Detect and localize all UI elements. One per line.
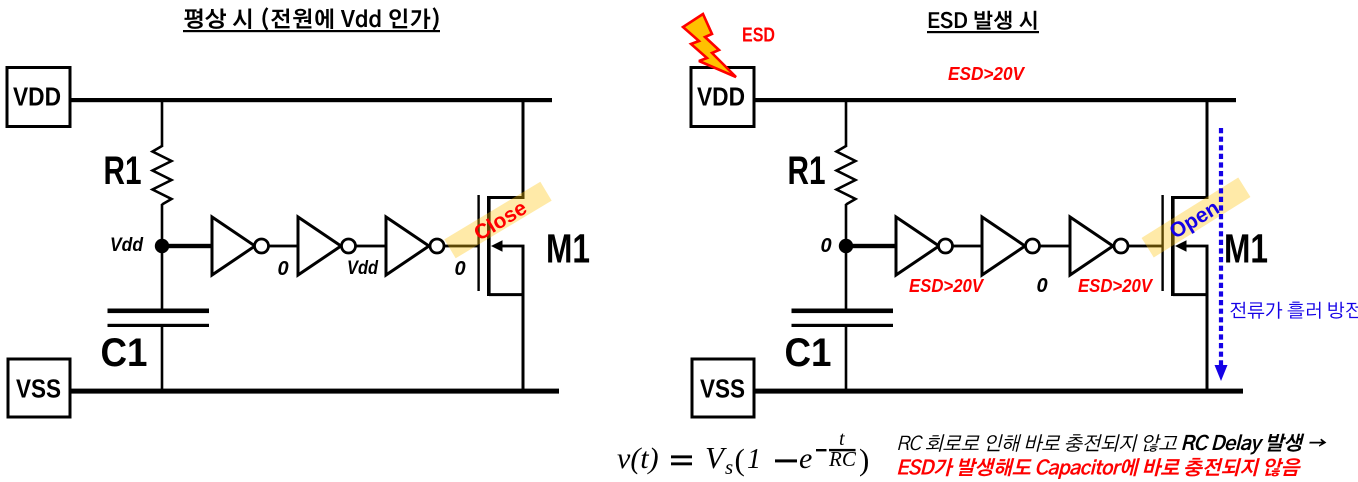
wire: VSS bottom rail (R): [754, 389, 1243, 394]
svg-text:v(t): v(t): [617, 442, 659, 475]
transistor M1 source connection (R): [1173, 295, 1207, 391]
inverter U1 (R): [896, 217, 939, 275]
svg-text:ESD>20V: ESD>20V: [948, 63, 1026, 84]
svg-text:VDD: VDD: [13, 82, 61, 112]
transistor M1 channel line (R): [1171, 196, 1175, 296]
wire: node to capacitor (R): [845, 246, 848, 309]
VDD terminal box (L): [7, 68, 70, 127]
svg-text:Vdd: Vdd: [110, 234, 144, 256]
inverter U3 (L): [386, 217, 429, 275]
wire U2-U3 (L): [356, 245, 387, 248]
svg-text:R1: R1: [104, 149, 142, 193]
wire: capacitor to bottom rail (R): [845, 326, 848, 391]
inverter U1 (L): [212, 217, 255, 275]
wire U3 to gate (L): [444, 245, 478, 248]
transistor M1 gate line (L): [477, 195, 479, 291]
resistor R1 (R): [837, 146, 856, 205]
wire U1-U2 (R): [953, 245, 983, 248]
svg-text:VSS: VSS: [16, 374, 61, 404]
wire: resistor to node (L): [161, 204, 164, 246]
wire: capacitor to bottom rail (L): [161, 326, 164, 391]
svg-text:ESD>20V: ESD>20V: [1078, 276, 1154, 296]
transistor M1 channel line (L): [487, 196, 491, 296]
wire U3 to gate (R): [1128, 245, 1162, 248]
wire: VDD top rail (R): [754, 98, 1236, 102]
svg-text:C1: C1: [101, 331, 148, 375]
wire: node to inverter chain (R): [846, 244, 896, 248]
inverter U2 (L): [298, 217, 341, 275]
svg-text:1: 1: [747, 444, 761, 475]
svg-text:(: (: [735, 442, 745, 477]
transistor M1 source connection (L): [489, 295, 523, 391]
wire U2-U3 (R): [1040, 245, 1071, 248]
svg-text:M1: M1: [1224, 226, 1268, 272]
wire: rail to resistor (R): [845, 100, 848, 147]
highlight band Open (R): [1142, 178, 1251, 258]
transistor M1 drain connection (L): [489, 100, 523, 198]
resistor R1 (L): [153, 146, 172, 205]
svg-text:ESD>20V: ESD>20V: [909, 276, 985, 296]
svg-text:M1: M1: [546, 226, 590, 272]
title underline left: [183, 30, 440, 32]
svg-text:RC: RC: [828, 447, 857, 471]
node: RC node dot (L): [155, 239, 169, 253]
transistor M1 gate line (R): [1161, 195, 1163, 291]
capacitor C1 (L): [108, 309, 210, 314]
svg-text:ESD: ESD: [742, 25, 775, 47]
transistor M1 bulk arrow (R): [1180, 245, 1209, 248]
formula v(t) = Vs(1 - e^-t/RC): [617, 428, 869, 479]
transistor M1 drain connection (R): [1173, 100, 1207, 198]
highlight band Close (L): [444, 182, 551, 259]
svg-text:R1: R1: [788, 149, 826, 193]
svg-text:Vdd: Vdd: [347, 258, 378, 279]
wire: resistor to node (R): [845, 204, 848, 246]
title underline right: [927, 31, 1039, 33]
svg-text:0: 0: [277, 258, 288, 280]
note line 1: RC delay (Korean): [898, 434, 1326, 455]
node: RC node dot (R): [839, 239, 853, 253]
capacitor C1 (R): [792, 309, 894, 314]
svg-text:): ): [859, 442, 869, 477]
svg-text:e: e: [799, 442, 812, 475]
svg-text:VSS: VSS: [700, 374, 745, 404]
wire: node to inverter chain (L): [162, 244, 212, 248]
inverter U3 (R): [1070, 217, 1113, 275]
ESD lightning bolt: [683, 14, 736, 77]
svg-text:0: 0: [820, 235, 831, 257]
note line 2: ESD charge (Korean, red): [898, 458, 1301, 479]
title: right (ESD event, Korean): [929, 11, 1037, 30]
title: left (normal operation, Korean): [185, 7, 439, 30]
VSS terminal box (L): [8, 359, 70, 417]
svg-text:0: 0: [454, 258, 465, 280]
wire: VDD top rail (L): [70, 98, 552, 102]
inverter U2 (R): [982, 217, 1025, 275]
wire: node to capacitor (L): [161, 246, 164, 309]
svg-text:VDD: VDD: [697, 82, 745, 112]
label: current discharge (Korean, blue): [1230, 302, 1358, 319]
wire U1-U2 (L): [269, 245, 299, 248]
wire: rail to resistor (L): [161, 100, 164, 147]
wire: VSS bottom rail (L): [70, 389, 559, 394]
blue discharge dashed arrow: [1219, 128, 1223, 366]
VDD terminal box (R): [691, 68, 754, 127]
svg-text:V: V: [705, 440, 727, 475]
svg-text:0: 0: [1036, 275, 1047, 297]
transistor M1 bulk arrow (L): [496, 245, 525, 248]
svg-text:C1: C1: [785, 331, 832, 375]
svg-text:s: s: [725, 455, 733, 479]
VSS terminal box (R): [692, 359, 754, 417]
